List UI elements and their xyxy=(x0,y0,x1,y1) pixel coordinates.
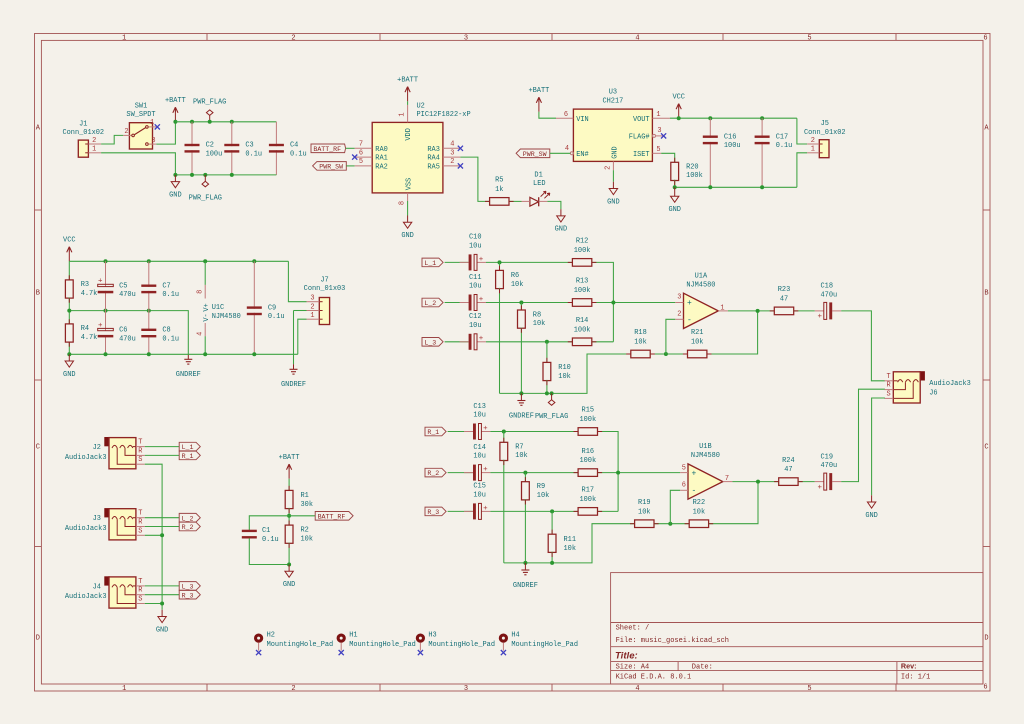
svg-text:AudioJack3: AudioJack3 xyxy=(65,454,107,462)
svg-text:C9: C9 xyxy=(268,304,276,312)
resistor R11 10k xyxy=(548,534,556,552)
svg-text:+: + xyxy=(692,469,697,478)
svg-text:VCC: VCC xyxy=(672,94,685,102)
svg-text:GNDREF: GNDREF xyxy=(513,582,538,590)
resistor R9 10k xyxy=(522,482,530,500)
svg-text:H3: H3 xyxy=(428,632,436,640)
power symbol GND (U3) xyxy=(612,182,614,189)
svg-text:4: 4 xyxy=(450,141,454,149)
svg-text:30k: 30k xyxy=(301,501,314,509)
svg-text:R: R xyxy=(138,587,142,595)
wire J1.1 to GND rail xyxy=(101,153,175,175)
svg-text:1: 1 xyxy=(122,34,126,42)
power symbol +BATT (U2 VDD) xyxy=(407,91,409,101)
connector J5 Conn_01x02 xyxy=(819,140,829,158)
junction J3 S xyxy=(160,533,164,537)
svg-text:10k: 10k xyxy=(638,508,651,516)
svg-text:GND: GND xyxy=(607,198,620,206)
junction R3 R4 mid xyxy=(67,309,71,313)
svg-text:10u: 10u xyxy=(473,453,486,461)
wire VCC to R3 xyxy=(68,261,70,280)
power symbol GND (divider R2) xyxy=(288,565,290,572)
svg-text:GND: GND xyxy=(611,146,619,159)
wire R_2 to R9 xyxy=(524,473,526,482)
svg-text:V+: V+ xyxy=(203,303,211,311)
svg-text:RA5: RA5 xyxy=(427,164,440,172)
wire R14 to bus xyxy=(592,341,613,343)
svg-text:GND: GND xyxy=(401,232,414,240)
svg-text:VIN: VIN xyxy=(576,116,589,124)
svg-text:C4: C4 xyxy=(290,142,298,150)
svg-text:R3: R3 xyxy=(81,281,89,289)
wire J7.2 to GNDREF xyxy=(293,311,295,365)
svg-text:+BATT: +BATT xyxy=(397,77,418,85)
svg-text:D: D xyxy=(36,635,40,643)
svg-text:470u: 470u xyxy=(821,462,838,470)
svg-text:R7: R7 xyxy=(515,443,523,451)
svg-text:MountingHole_Pad: MountingHole_Pad xyxy=(511,641,578,649)
power symbol GND (battery rail) xyxy=(174,175,176,182)
svg-text:PWR_FLAG: PWR_FLAG xyxy=(535,413,568,421)
svg-text:C5: C5 xyxy=(119,282,127,290)
svg-text:J7: J7 xyxy=(320,276,328,284)
junction C9 top xyxy=(252,259,256,263)
resistor R18 10k xyxy=(631,350,650,358)
svg-text:10u: 10u xyxy=(469,283,482,291)
svg-text:T: T xyxy=(138,578,142,586)
junction R20 GND xyxy=(673,185,677,189)
svg-text:R_2: R_2 xyxy=(182,524,194,531)
global label L_2 at J3 xyxy=(179,513,200,522)
svg-text:2: 2 xyxy=(124,128,128,136)
svg-text:10u: 10u xyxy=(473,492,486,500)
junction GNDREF attach xyxy=(519,391,523,395)
svg-text:R18: R18 xyxy=(634,329,647,337)
wire feedback to U1A -in xyxy=(666,319,675,354)
svg-text:+: + xyxy=(687,299,692,308)
svg-text:3: 3 xyxy=(450,149,454,157)
wire R21 to U1A out xyxy=(707,311,758,354)
wire L_3 to R10 xyxy=(546,342,548,363)
svg-text:2: 2 xyxy=(811,137,815,145)
svg-text:R: R xyxy=(138,447,142,455)
svg-text:+BATT: +BATT xyxy=(279,454,300,462)
svg-text:6: 6 xyxy=(983,34,987,42)
junction U1C V+ xyxy=(203,259,207,263)
junction bus to +in (right) xyxy=(616,471,620,475)
svg-text:R: R xyxy=(887,382,891,390)
audio jack J2 AudioJack3 xyxy=(104,437,109,446)
svg-text:PWR_SW: PWR_SW xyxy=(523,151,547,158)
resistor R24 47 xyxy=(779,478,798,486)
wire D1 to GND xyxy=(547,201,561,209)
wire ISET to R20 xyxy=(661,153,675,162)
svg-text:10k: 10k xyxy=(564,545,577,553)
wire R9 to GNDREF bus xyxy=(524,499,526,563)
wire U1B out to R24 xyxy=(732,481,778,483)
svg-text:Conn_01x02: Conn_01x02 xyxy=(804,129,846,137)
svg-text:C3: C3 xyxy=(245,142,253,150)
wire R_2 to C14 xyxy=(448,472,473,474)
svg-text:+: + xyxy=(98,278,103,286)
svg-text:EN#: EN# xyxy=(576,151,589,159)
global label L_1 at J2 xyxy=(179,442,200,451)
wire VSS to GND xyxy=(407,201,409,216)
svg-text:NJM4580: NJM4580 xyxy=(212,313,241,321)
svg-text:R8: R8 xyxy=(533,311,541,319)
svg-text:GNDREF: GNDREF xyxy=(509,412,534,420)
wire C14 to R16 xyxy=(490,472,578,474)
svg-text:T: T xyxy=(138,510,142,518)
svg-text:C7: C7 xyxy=(162,282,170,290)
capacitor C10 10u xyxy=(460,261,469,263)
svg-text:100k: 100k xyxy=(574,287,591,295)
svg-text:B: B xyxy=(984,290,988,298)
svg-text:2: 2 xyxy=(291,685,295,693)
global label R_3 at J4 xyxy=(179,590,200,599)
svg-text:5: 5 xyxy=(656,146,660,154)
power symbol +BATT (divider) xyxy=(288,468,290,478)
wire summing bus (left) xyxy=(592,262,613,341)
wire R_3 to C15 xyxy=(448,510,473,512)
junction C3 bottom xyxy=(230,173,234,177)
svg-text:GNDREF: GNDREF xyxy=(176,371,201,379)
global label BATT_RF (divider) xyxy=(315,512,353,521)
junction PWR_FLAG bottom xyxy=(203,173,207,177)
svg-text:C18: C18 xyxy=(821,283,834,291)
svg-text:VSS: VSS xyxy=(405,178,413,191)
power symbol GNDREF (J7) xyxy=(293,364,295,369)
svg-text:7: 7 xyxy=(725,475,729,483)
resistor R17 100k xyxy=(578,508,597,516)
svg-text:8: 8 xyxy=(399,201,407,205)
wire R2 to GND xyxy=(288,543,290,565)
svg-text:V-: V- xyxy=(203,313,211,321)
junction GND rail left xyxy=(173,173,177,177)
svg-text:H1: H1 xyxy=(349,632,357,640)
wire R16 to U1B +in xyxy=(598,472,681,474)
svg-text:B: B xyxy=(36,290,40,298)
svg-text:C16: C16 xyxy=(724,133,737,141)
svg-text:R_1: R_1 xyxy=(427,429,439,436)
svg-text:+BATT: +BATT xyxy=(528,87,549,95)
svg-text:10k: 10k xyxy=(515,452,528,460)
svg-text:10k: 10k xyxy=(533,320,546,328)
svg-text:U3: U3 xyxy=(609,89,617,97)
svg-text:GND: GND xyxy=(865,512,878,520)
wire GND bottom rail (divider) xyxy=(69,353,297,355)
no-connect H1 xyxy=(339,650,344,655)
svg-text:AudioJack3: AudioJack3 xyxy=(929,380,971,388)
junction C5 C6 mid xyxy=(104,309,108,313)
no-connect H3 xyxy=(418,650,423,655)
wire R8 to GNDREF bus xyxy=(520,328,522,394)
global label L_1 (mixer in) xyxy=(422,258,443,267)
no-connect U2.RA1 xyxy=(352,155,357,160)
svg-text:R17: R17 xyxy=(582,487,595,495)
wire VDD to +BATT xyxy=(407,101,409,105)
wire R24 to C19 xyxy=(798,481,815,483)
svg-text:J3: J3 xyxy=(93,515,101,523)
svg-text:R2: R2 xyxy=(301,527,309,535)
capacitor C13 10u xyxy=(464,431,473,433)
wire GND to J7.1 xyxy=(298,319,307,354)
svg-text:C12: C12 xyxy=(469,313,482,321)
junction VCC xyxy=(677,116,681,120)
svg-text:+: + xyxy=(479,256,484,264)
power symbol GND (LED) xyxy=(560,209,562,216)
global label R_1 at J2 xyxy=(179,451,200,460)
wire J3 R to R_2 xyxy=(145,526,179,528)
svg-text:H2: H2 xyxy=(267,632,275,640)
svg-text:-: - xyxy=(692,487,697,496)
svg-text:C: C xyxy=(984,443,988,451)
resistor R6 10k xyxy=(496,270,504,288)
resistor R4 4.7k xyxy=(65,324,73,342)
wire GND to J5.1 xyxy=(797,153,807,188)
svg-text:10k: 10k xyxy=(511,281,524,289)
svg-text:J5: J5 xyxy=(821,120,829,128)
svg-text:10k: 10k xyxy=(558,373,571,381)
svg-text:5: 5 xyxy=(807,685,811,693)
svg-text:0.1u: 0.1u xyxy=(268,313,285,321)
svg-text:+: + xyxy=(479,335,484,343)
no-connect SW1.1 xyxy=(155,124,160,129)
wire R6 to GNDREF bus xyxy=(499,288,501,394)
wire VOUT rail xyxy=(670,117,797,119)
capacitor C14 10u xyxy=(464,472,473,474)
junction R6 top xyxy=(498,260,502,264)
wire R_3 to R11 xyxy=(551,511,553,534)
svg-text:S: S xyxy=(887,390,891,398)
wire PWR_SW to RA2 xyxy=(346,165,354,167)
resistor R14 100k xyxy=(572,338,591,346)
resistor R10 10k xyxy=(543,362,551,380)
svg-text:3: 3 xyxy=(677,294,681,302)
wire GNDREF bus to R19 xyxy=(504,524,635,563)
power flag PWR_FLAG (top) xyxy=(209,115,211,121)
resistor R5 1k xyxy=(490,198,509,206)
junction R10 bottom xyxy=(545,391,549,395)
wire L_3 to C12 xyxy=(445,341,469,343)
svg-text:RA2: RA2 xyxy=(375,164,388,172)
svg-text:8: 8 xyxy=(197,290,205,294)
svg-text:File: music_gosei.kicad_sch: File: music_gosei.kicad_sch xyxy=(616,637,729,645)
wire PWR_SW to EN# xyxy=(550,152,571,154)
junction J4 S xyxy=(160,602,164,606)
svg-text:PWR_FLAG: PWR_FLAG xyxy=(189,195,222,203)
resistor R8 10k xyxy=(518,310,526,328)
resistor R22 10k xyxy=(689,520,708,528)
svg-text:C13: C13 xyxy=(473,403,486,411)
svg-text:4: 4 xyxy=(635,34,639,42)
svg-text:U1B: U1B xyxy=(699,443,712,451)
U3 pins xyxy=(556,117,573,119)
resistor pin stubs xyxy=(485,200,490,202)
wire J4 R to R_3 xyxy=(145,594,179,596)
resistor R13 100k xyxy=(572,299,591,307)
junction PWR_FLAG top xyxy=(208,120,212,124)
svg-text:470u: 470u xyxy=(119,291,136,299)
svg-text:S: S xyxy=(138,527,142,535)
svg-text:GND: GND xyxy=(156,626,169,634)
svg-text:C14: C14 xyxy=(473,444,486,452)
mounting hole H4 xyxy=(499,634,508,643)
op-amp U1A NJM4580 xyxy=(684,293,719,328)
capacitor C8 0.1u xyxy=(148,311,150,331)
wire R17 to bus xyxy=(598,510,619,512)
svg-text:3: 3 xyxy=(151,137,155,145)
svg-text:1: 1 xyxy=(811,146,815,154)
svg-text:CH217: CH217 xyxy=(602,97,623,105)
wire C11 to R13 xyxy=(486,302,572,304)
mounting hole H1 xyxy=(337,634,346,643)
svg-text:100u: 100u xyxy=(206,151,223,159)
wire SW1.3 to +BATT rail xyxy=(156,122,175,144)
wire C12 to R14 xyxy=(486,341,572,343)
wire U3 GND pin xyxy=(612,170,614,182)
svg-text:10k: 10k xyxy=(301,536,314,544)
junction U1C V- xyxy=(203,352,207,356)
svg-text:R21: R21 xyxy=(691,329,704,337)
svg-text:100k: 100k xyxy=(574,326,591,334)
svg-text:47: 47 xyxy=(784,466,792,474)
mounting hole H2 xyxy=(254,634,263,643)
svg-text:R22: R22 xyxy=(693,499,706,507)
svg-text:10k: 10k xyxy=(537,492,550,500)
svg-text:NJM4580: NJM4580 xyxy=(691,452,720,460)
svg-text:GNDREF: GNDREF xyxy=(281,381,306,389)
svg-text:R6: R6 xyxy=(511,272,519,280)
global label L_3 at J4 xyxy=(179,582,200,591)
svg-text:J4: J4 xyxy=(93,583,101,591)
svg-text:PIC12F1822-xP: PIC12F1822-xP xyxy=(417,111,471,119)
LED D1 xyxy=(530,197,539,206)
svg-text:2: 2 xyxy=(310,303,314,311)
capacitor C19 470u xyxy=(815,481,824,483)
svg-text:R20: R20 xyxy=(686,163,699,171)
svg-text:4.7k: 4.7k xyxy=(81,290,98,298)
svg-text:1: 1 xyxy=(399,112,407,116)
junction R11 bottom xyxy=(550,561,554,565)
wire J3 S to GND bus xyxy=(145,534,162,536)
svg-text:R_3: R_3 xyxy=(427,509,439,516)
junction R7 top xyxy=(502,430,506,434)
no-connect H4 xyxy=(501,650,506,655)
svg-text:+BATT: +BATT xyxy=(165,97,186,105)
wire U1A out to R23 xyxy=(728,310,774,312)
power symbol GND (input jacks) xyxy=(161,610,163,617)
wire R10 to GNDREF bus xyxy=(546,380,548,394)
svg-text:100k: 100k xyxy=(579,496,596,504)
svg-text:R13: R13 xyxy=(576,278,589,286)
svg-text:GND: GND xyxy=(283,581,296,589)
svg-text:H4: H4 xyxy=(511,632,519,640)
wire L_2 to R8 xyxy=(520,303,522,311)
wire GND bottom rail xyxy=(175,174,276,176)
no-connect U3.FLAG# xyxy=(661,133,666,138)
svg-text:470u: 470u xyxy=(821,291,838,299)
wire to C1 xyxy=(249,516,289,531)
svg-text:R1: R1 xyxy=(301,492,309,500)
svg-text:100k: 100k xyxy=(579,416,596,424)
wire R7 to GNDREF bus xyxy=(503,460,505,563)
svg-text:10k: 10k xyxy=(691,339,704,347)
svg-text:GND: GND xyxy=(63,371,76,379)
resistor R12 100k xyxy=(572,259,591,267)
title block xyxy=(611,573,983,684)
svg-text:U2: U2 xyxy=(417,102,425,110)
svg-text:Sheet: /: Sheet: / xyxy=(616,625,650,633)
svg-text:+: + xyxy=(479,296,484,304)
global label R_2 at J3 xyxy=(179,522,200,531)
svg-text:L_1: L_1 xyxy=(182,444,194,451)
svg-text:C6: C6 xyxy=(119,327,127,335)
junction C5 top xyxy=(104,259,108,263)
junction C16 top xyxy=(708,116,712,120)
junction C9 bottom xyxy=(252,352,256,356)
no-connect H2 xyxy=(256,650,261,655)
wire C15 to R17 xyxy=(490,510,578,512)
resistor R2 10k xyxy=(285,525,293,543)
power symbol VCC (U3 VOUT) xyxy=(678,108,680,118)
svg-text:C19: C19 xyxy=(821,453,834,461)
power symbol +BATT (battery rail) xyxy=(174,111,176,121)
wire J6 S to GND xyxy=(872,398,885,495)
global label L_3 (mixer in) xyxy=(422,338,443,347)
svg-text:R12: R12 xyxy=(576,238,589,246)
svg-text:+: + xyxy=(98,322,103,330)
power symbol GND (R20) xyxy=(674,187,676,196)
svg-text:RA3: RA3 xyxy=(427,146,440,154)
svg-text:C10: C10 xyxy=(469,234,482,242)
svg-text:7: 7 xyxy=(359,141,363,149)
svg-text:T: T xyxy=(887,373,891,381)
svg-text:R4: R4 xyxy=(81,325,89,333)
svg-text:3: 3 xyxy=(464,685,468,693)
global label R_1 (mixer in) xyxy=(425,427,446,436)
U2 pins xyxy=(355,147,373,149)
junction C7 C8 mid xyxy=(147,309,151,313)
svg-text:1: 1 xyxy=(720,304,724,312)
wire R23 to C18 xyxy=(794,310,815,312)
svg-text:PWR_SW: PWR_SW xyxy=(319,164,343,171)
global label BATT_RF at U2.RA0 xyxy=(311,144,346,153)
capacitor C2 100u xyxy=(191,122,193,146)
svg-text:NJM4580: NJM4580 xyxy=(686,281,715,289)
capacitor C9 0.1u xyxy=(253,261,255,309)
svg-text:U1C: U1C xyxy=(212,304,225,312)
audio jack J3 AudioJack3 xyxy=(104,508,109,517)
junction BATT_RF xyxy=(287,514,291,518)
svg-text:C: C xyxy=(36,443,40,451)
wire C13 to R15 xyxy=(490,431,578,433)
wire R18 to R21 xyxy=(650,353,687,355)
global label R_2 (mixer in) xyxy=(425,468,446,477)
svg-text:VCC: VCC xyxy=(63,237,76,245)
svg-text:MountingHole_Pad: MountingHole_Pad xyxy=(267,641,334,649)
wire GNDREF bus to R18 xyxy=(500,354,631,393)
svg-text:1: 1 xyxy=(310,312,314,320)
resistor R19 10k xyxy=(635,520,654,528)
svg-text:R5: R5 xyxy=(495,177,503,185)
wire R20 bottom rail xyxy=(675,180,797,188)
wire RA4 to R5 xyxy=(460,157,489,201)
svg-text:1: 1 xyxy=(92,146,96,154)
svg-text:D1: D1 xyxy=(534,171,542,179)
wire +BATT to R1 xyxy=(288,479,290,491)
svg-text:3: 3 xyxy=(464,34,468,42)
